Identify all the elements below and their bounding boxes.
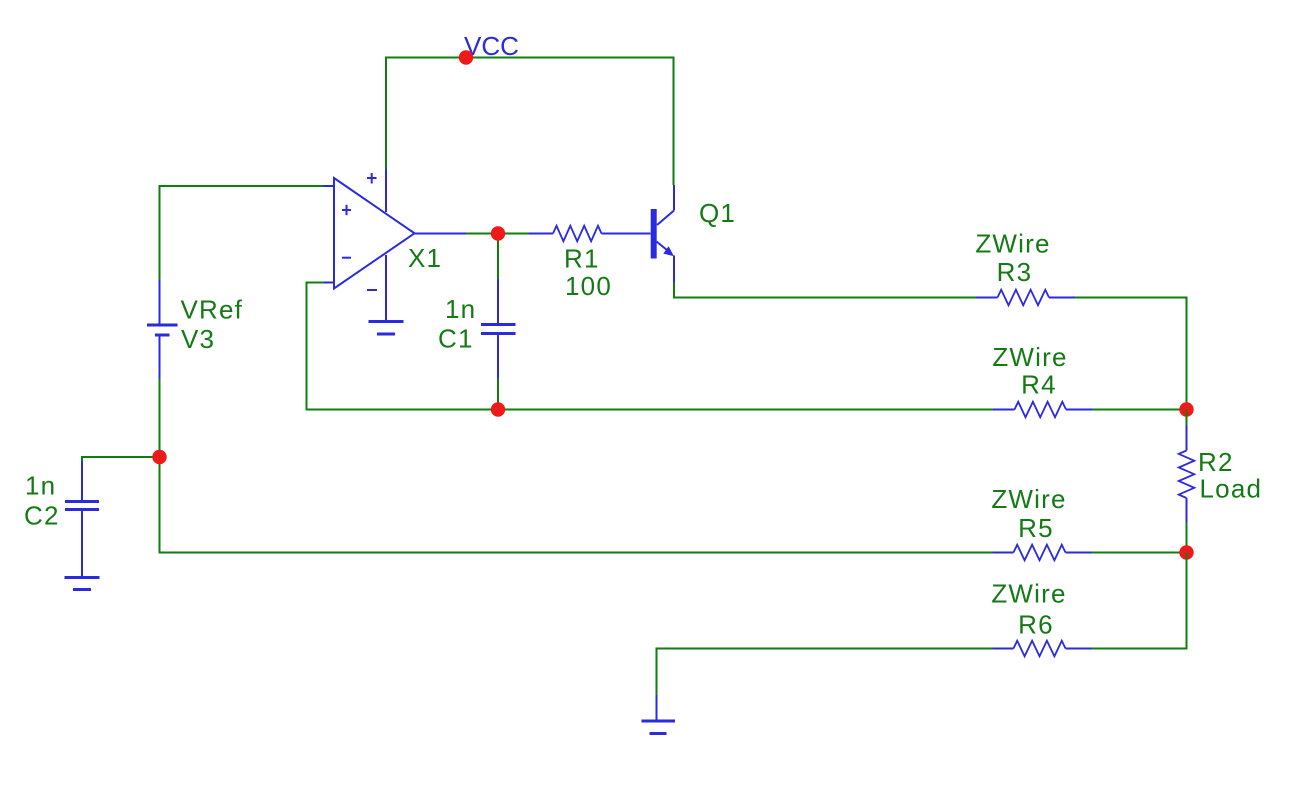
resistor R6 ZWire bbox=[993, 641, 1092, 657]
voltage source V3 bbox=[147, 280, 178, 379]
svg-text:R6: R6 bbox=[1018, 610, 1054, 640]
op-amp X1 bbox=[323, 169, 415, 322]
svg-text:ZWire: ZWire bbox=[992, 342, 1067, 372]
wire R3 to R2 top node bbox=[1075, 298, 1187, 410]
resistor R1 bbox=[529, 226, 651, 242]
label VRef V3 bbox=[181, 295, 244, 355]
svg-text:R4: R4 bbox=[1021, 370, 1057, 400]
svg-text:V3: V3 bbox=[181, 324, 215, 354]
wire R2 bottom to R5 node bbox=[1186, 523, 1188, 553]
junction dot output bbox=[491, 226, 505, 240]
label ZWire R3 bbox=[975, 229, 1050, 288]
svg-text:R3: R3 bbox=[997, 257, 1033, 287]
resistor R4 ZWire bbox=[993, 402, 1093, 418]
svg-text:ZWire: ZWire bbox=[991, 579, 1066, 609]
wire VRef bottom to left dot down to R5 row bbox=[160, 379, 993, 553]
wire op-amp output bbox=[415, 234, 529, 281]
label ZWire R5 bbox=[991, 484, 1066, 543]
label X1 bbox=[408, 243, 442, 273]
svg-text:C2: C2 bbox=[24, 501, 60, 531]
svg-text:1n: 1n bbox=[445, 294, 476, 324]
wire R2 bottom node down to R6 bbox=[1092, 553, 1187, 649]
label ZWire R4 bbox=[992, 342, 1067, 400]
wire from noninverting input to VRef bbox=[160, 186, 325, 280]
svg-text:ZWire: ZWire bbox=[991, 484, 1066, 514]
wire C1 to feedback row bbox=[497, 379, 499, 410]
wire R6 to bottom ground bbox=[657, 649, 993, 696]
junction dot VCC bbox=[459, 50, 473, 64]
svg-text:1n: 1n bbox=[25, 471, 56, 501]
wire feedback row from inverting input bbox=[307, 283, 994, 410]
label 1n C1 bbox=[438, 294, 476, 354]
svg-text:R5: R5 bbox=[1018, 513, 1054, 543]
junction dot left node bbox=[152, 450, 166, 464]
resistor R2 Load bbox=[1179, 425, 1195, 523]
wire left dot to C2 bbox=[82, 457, 160, 462]
svg-text:Load: Load bbox=[1200, 474, 1263, 504]
transistor Q1 bbox=[651, 185, 674, 283]
svg-text:VRef: VRef bbox=[181, 295, 244, 325]
wire R5 to R2 bottom node bbox=[1092, 552, 1187, 554]
svg-text:ZWire: ZWire bbox=[975, 229, 1050, 259]
ground under op-amp bbox=[369, 322, 404, 335]
svg-text:Q1: Q1 bbox=[699, 198, 736, 228]
junction dot R2 top bbox=[1179, 402, 1193, 416]
capacitor C1 bbox=[481, 279, 516, 379]
svg-text:X1: X1 bbox=[408, 243, 442, 273]
label R1 100 bbox=[564, 244, 612, 302]
node VCC label bbox=[464, 31, 519, 61]
label R2 Load bbox=[1198, 447, 1262, 504]
junction dot R5 node bbox=[1179, 545, 1193, 559]
label Q1 bbox=[699, 198, 736, 228]
junction dot feedback C1 bbox=[491, 402, 505, 416]
wire R2 top node stub bbox=[1186, 410, 1188, 426]
ground bottom bbox=[642, 695, 676, 734]
resistor R5 ZWire bbox=[993, 545, 1092, 561]
wire R4 to R2 top node bbox=[1093, 409, 1187, 411]
svg-text:100: 100 bbox=[565, 271, 612, 301]
wire VCC top rail bbox=[386, 58, 674, 186]
ground under C2 bbox=[65, 578, 100, 590]
svg-text:R1: R1 bbox=[564, 244, 600, 274]
wire Q1 emitter to R3 bbox=[674, 283, 976, 298]
label ZWire R6 bbox=[991, 579, 1066, 640]
label 1n C2 bbox=[24, 471, 60, 531]
svg-text:R2: R2 bbox=[1198, 447, 1234, 477]
svg-text:C1: C1 bbox=[438, 324, 474, 354]
resistor R3 ZWire bbox=[976, 290, 1075, 306]
capacitor C2 bbox=[65, 461, 99, 576]
